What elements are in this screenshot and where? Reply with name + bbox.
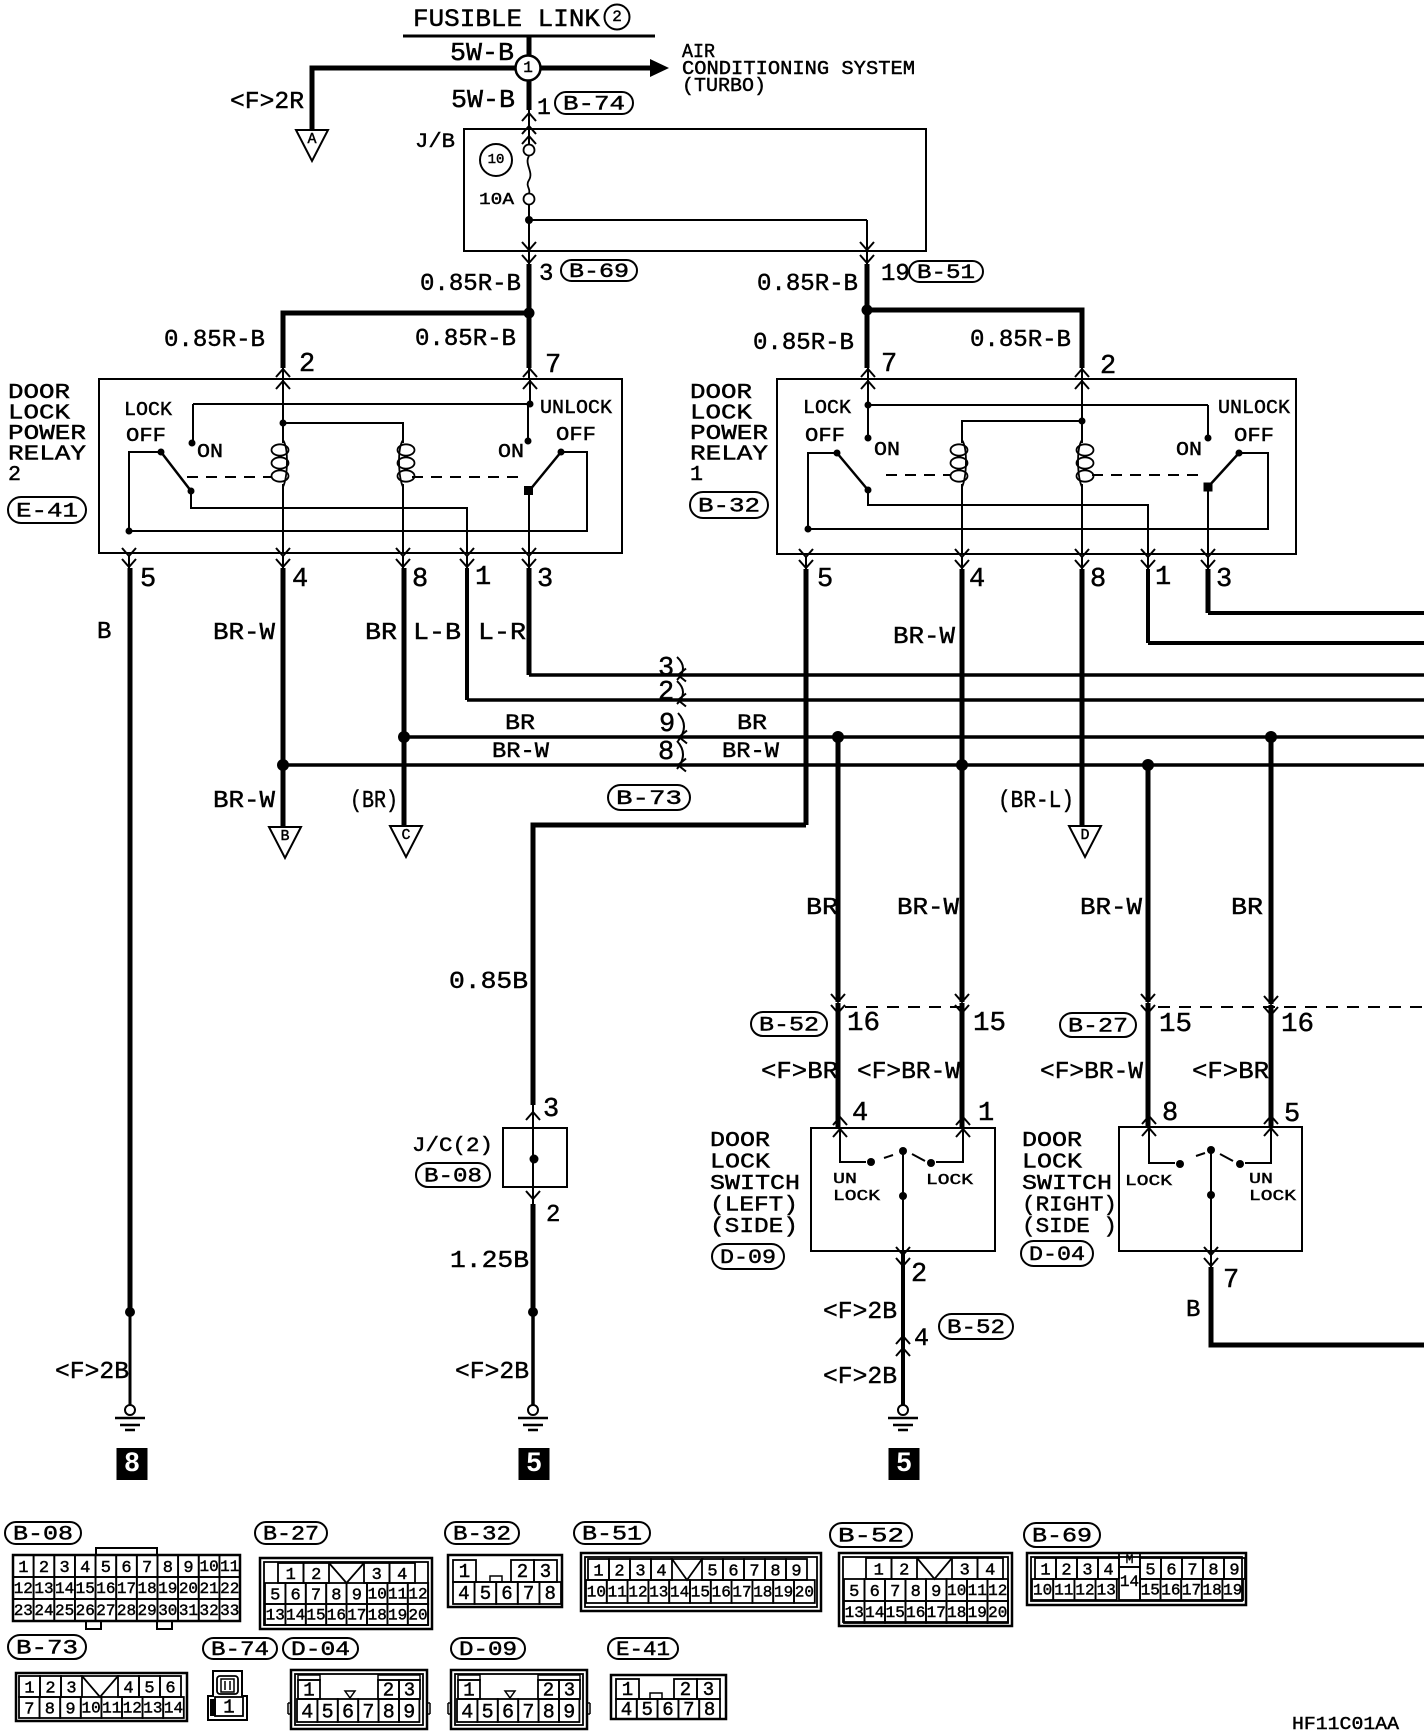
svg-text:1: 1 — [459, 1561, 470, 1583]
svg-text:8: 8 — [704, 1699, 715, 1721]
svg-text:OFF: OFF — [556, 424, 596, 446]
svg-text:8: 8 — [658, 738, 674, 768]
svg-text:5: 5 — [480, 1583, 491, 1605]
svg-text:15: 15 — [973, 1009, 1006, 1039]
svg-text:20: 20 — [179, 1580, 198, 1598]
svg-text:BR-W: BR-W — [213, 788, 276, 815]
svg-text:1.25B: 1.25B — [450, 1248, 529, 1275]
svg-text:21: 21 — [199, 1580, 218, 1598]
svg-text:J/B: J/B — [415, 131, 455, 154]
svg-text:(BR): (BR) — [350, 788, 398, 815]
svg-text:8: 8 — [124, 1447, 139, 1477]
svg-text:B-08: B-08 — [13, 1524, 73, 1547]
svg-text:E-41: E-41 — [616, 1639, 670, 1662]
svg-text:10: 10 — [368, 1586, 387, 1604]
svg-text:1: 1 — [286, 1566, 296, 1585]
svg-text:2: 2 — [8, 464, 21, 487]
svg-text:OFF: OFF — [805, 425, 845, 447]
svg-text:19: 19 — [1223, 1582, 1242, 1600]
svg-text:3: 3 — [635, 1562, 645, 1581]
svg-text:7: 7 — [1223, 1266, 1239, 1296]
svg-text:12: 12 — [14, 1580, 33, 1598]
svg-text:3: 3 — [1216, 565, 1232, 595]
svg-text:LOCK: LOCK — [710, 1152, 770, 1175]
svg-text:11: 11 — [1054, 1582, 1073, 1600]
svg-text:B: B — [280, 828, 289, 845]
svg-text:3: 3 — [372, 1566, 382, 1585]
svg-text:9: 9 — [352, 1586, 362, 1605]
svg-text:<F>2B: <F>2B — [55, 1359, 129, 1386]
svg-text:1: 1 — [593, 1562, 603, 1581]
svg-text:LOCK: LOCK — [124, 399, 173, 421]
svg-text:1: 1 — [978, 1099, 994, 1129]
svg-text:14: 14 — [55, 1580, 74, 1598]
svg-text:16: 16 — [906, 1604, 925, 1622]
svg-text:7: 7 — [522, 1701, 534, 1724]
svg-text:1: 1 — [537, 95, 551, 121]
svg-text:4: 4 — [458, 1583, 469, 1605]
svg-text:(TURBO): (TURBO) — [682, 75, 766, 97]
svg-text:C: C — [401, 827, 410, 844]
svg-text:ON: ON — [498, 441, 524, 463]
svg-text:LOCK: LOCK — [803, 397, 852, 419]
svg-text:8: 8 — [45, 1700, 55, 1719]
svg-text:SWITCH: SWITCH — [710, 1173, 800, 1196]
svg-text:12: 12 — [1075, 1582, 1094, 1600]
svg-text:3: 3 — [543, 1095, 559, 1125]
svg-text:FUSIBLE LINK: FUSIBLE LINK — [413, 5, 600, 34]
svg-text:BR-W: BR-W — [897, 895, 960, 922]
svg-text:B-32: B-32 — [698, 496, 760, 519]
svg-text:11: 11 — [608, 1584, 627, 1602]
svg-text:10: 10 — [199, 1558, 218, 1576]
svg-text:B-74: B-74 — [211, 1639, 269, 1662]
svg-text:29: 29 — [138, 1602, 157, 1620]
svg-text:0.85R-B: 0.85R-B — [420, 271, 521, 298]
svg-text:8: 8 — [412, 565, 428, 595]
svg-text:13: 13 — [649, 1584, 668, 1602]
svg-text:<F>BR: <F>BR — [1192, 1059, 1269, 1086]
svg-text:<F>BR: <F>BR — [761, 1059, 838, 1086]
svg-text:15: 15 — [76, 1580, 95, 1598]
svg-text:B-74: B-74 — [563, 94, 625, 117]
svg-text:B-52: B-52 — [838, 1526, 904, 1549]
svg-text:5: 5 — [1145, 1561, 1155, 1580]
svg-text:9: 9 — [183, 1559, 193, 1578]
svg-text:13: 13 — [266, 1607, 285, 1625]
svg-text:B-51: B-51 — [917, 262, 975, 285]
svg-text:15: 15 — [886, 1604, 905, 1622]
svg-text:1: 1 — [874, 1561, 884, 1580]
svg-text:4: 4 — [985, 1561, 995, 1580]
svg-text:19: 19 — [388, 1607, 407, 1625]
svg-text:7: 7 — [362, 1701, 374, 1724]
svg-text:6: 6 — [121, 1559, 131, 1578]
svg-text:SWITCH: SWITCH — [1022, 1173, 1112, 1196]
svg-text:D-09: D-09 — [720, 1247, 776, 1270]
svg-text:30: 30 — [158, 1602, 177, 1620]
svg-text:7: 7 — [881, 350, 897, 380]
svg-text:19: 19 — [774, 1584, 793, 1602]
svg-text:0.85R-B: 0.85R-B — [164, 327, 265, 354]
svg-text:8: 8 — [1162, 1099, 1178, 1129]
svg-text:1: 1 — [690, 464, 703, 487]
svg-text:BR-W: BR-W — [492, 739, 550, 764]
svg-text:1: 1 — [223, 1697, 234, 1719]
svg-text:M: M — [1126, 1552, 1134, 1567]
svg-text:12: 12 — [988, 1582, 1007, 1600]
svg-text:2: 2 — [658, 678, 674, 708]
svg-text:10: 10 — [81, 1700, 100, 1718]
svg-text:5: 5 — [1284, 1100, 1300, 1130]
svg-text:L-R: L-R — [478, 620, 526, 647]
svg-text:<F>2R: <F>2R — [230, 89, 304, 116]
svg-text:8: 8 — [911, 1583, 921, 1602]
svg-text:10: 10 — [587, 1584, 606, 1602]
svg-text:28: 28 — [117, 1602, 136, 1620]
svg-text:16: 16 — [1161, 1582, 1180, 1600]
svg-text:B-32: B-32 — [453, 1524, 511, 1547]
svg-text:2: 2 — [1061, 1561, 1071, 1580]
svg-text:6: 6 — [290, 1586, 300, 1605]
svg-text:<F>2B: <F>2B — [823, 1364, 897, 1391]
svg-text:D-04: D-04 — [1029, 1244, 1085, 1267]
svg-text:1: 1 — [1155, 563, 1171, 593]
svg-text:BR-W: BR-W — [893, 624, 956, 651]
svg-text:3: 3 — [537, 565, 553, 595]
svg-text:8: 8 — [1208, 1561, 1218, 1580]
svg-text:9: 9 — [65, 1700, 75, 1719]
svg-text:15: 15 — [1141, 1582, 1160, 1600]
svg-text:19: 19 — [158, 1580, 177, 1598]
svg-text:18: 18 — [947, 1604, 966, 1622]
svg-text:4: 4 — [852, 1099, 868, 1129]
svg-text:4: 4 — [656, 1562, 666, 1581]
svg-text:6: 6 — [165, 1679, 175, 1698]
svg-text:9: 9 — [931, 1583, 941, 1602]
svg-text:13: 13 — [34, 1580, 53, 1598]
svg-text:9: 9 — [1229, 1561, 1239, 1580]
svg-text:7: 7 — [24, 1700, 34, 1719]
svg-text:5: 5 — [144, 1679, 154, 1698]
svg-text:<F>BR-W: <F>BR-W — [857, 1059, 961, 1086]
svg-text:15: 15 — [306, 1607, 325, 1625]
svg-text:9: 9 — [563, 1701, 575, 1724]
svg-text:UN: UN — [833, 1171, 857, 1188]
svg-text:3: 3 — [539, 261, 553, 288]
svg-text:B-69: B-69 — [1032, 1526, 1092, 1549]
svg-text:20: 20 — [408, 1607, 427, 1625]
svg-text:24: 24 — [34, 1602, 53, 1620]
svg-text:<F>BR-W: <F>BR-W — [1040, 1059, 1144, 1086]
svg-text:B-73: B-73 — [16, 1638, 78, 1661]
svg-text:10: 10 — [488, 152, 505, 168]
svg-text:5: 5 — [270, 1586, 280, 1605]
svg-text:1: 1 — [1040, 1561, 1050, 1580]
svg-text:2: 2 — [899, 1561, 909, 1580]
svg-text:15: 15 — [1159, 1010, 1192, 1040]
svg-text:2: 2 — [911, 1260, 927, 1290]
svg-text:10A: 10A — [479, 191, 515, 210]
svg-text:6: 6 — [728, 1562, 738, 1581]
svg-text:4: 4 — [301, 1701, 313, 1724]
svg-text:D: D — [1080, 827, 1089, 844]
svg-text:9: 9 — [659, 710, 675, 740]
svg-text:7: 7 — [142, 1559, 152, 1578]
svg-text:2: 2 — [311, 1566, 321, 1585]
svg-text:23: 23 — [14, 1602, 33, 1620]
svg-text:0.85R-B: 0.85R-B — [970, 327, 1071, 354]
svg-text:B-52: B-52 — [759, 1015, 819, 1038]
svg-text:5: 5 — [322, 1701, 334, 1724]
svg-text:18: 18 — [1202, 1582, 1221, 1600]
svg-text:6: 6 — [342, 1701, 354, 1724]
svg-text:4: 4 — [969, 565, 985, 595]
svg-text:4: 4 — [397, 1566, 407, 1585]
svg-text:6: 6 — [662, 1699, 673, 1721]
svg-text:4: 4 — [292, 565, 308, 595]
svg-text:20: 20 — [988, 1604, 1007, 1622]
svg-text:19: 19 — [968, 1604, 987, 1622]
svg-text:7: 7 — [683, 1699, 694, 1721]
svg-text:(LEFT): (LEFT) — [710, 1195, 798, 1218]
svg-text:5: 5 — [641, 1699, 652, 1721]
svg-text:3: 3 — [703, 1679, 714, 1701]
svg-text:33: 33 — [220, 1602, 239, 1620]
svg-text:B-08: B-08 — [424, 1166, 482, 1189]
svg-text:13: 13 — [1097, 1582, 1116, 1600]
svg-text:0.85R-B: 0.85R-B — [415, 326, 516, 353]
svg-text:0.85B: 0.85B — [449, 969, 528, 996]
svg-text:1: 1 — [475, 563, 491, 593]
svg-text:LOCK: LOCK — [1249, 1188, 1296, 1205]
svg-text:27: 27 — [96, 1602, 115, 1620]
svg-text:3: 3 — [540, 1561, 551, 1583]
svg-text:5: 5 — [707, 1562, 717, 1581]
svg-text:D-09: D-09 — [459, 1639, 517, 1662]
svg-text:DOOR: DOOR — [1022, 1130, 1082, 1153]
svg-text:<F>2B: <F>2B — [455, 1359, 529, 1386]
svg-text:11: 11 — [102, 1700, 121, 1718]
svg-text:17: 17 — [927, 1604, 946, 1622]
svg-text:19: 19 — [881, 261, 910, 288]
svg-text:UNLOCK: UNLOCK — [1218, 397, 1291, 419]
svg-text:2: 2 — [614, 1562, 624, 1581]
svg-text:16: 16 — [96, 1580, 115, 1598]
svg-text:6: 6 — [870, 1583, 880, 1602]
svg-text:4: 4 — [461, 1701, 473, 1724]
svg-text:7: 7 — [311, 1586, 321, 1605]
svg-text:8: 8 — [331, 1586, 341, 1605]
svg-text:16: 16 — [1281, 1010, 1314, 1040]
svg-text:3: 3 — [66, 1679, 76, 1698]
svg-text:(BR-L): (BR-L) — [998, 788, 1074, 815]
svg-text:5: 5 — [526, 1447, 541, 1477]
svg-text:B-27: B-27 — [263, 1524, 319, 1547]
svg-text:11: 11 — [968, 1582, 987, 1600]
svg-text:2: 2 — [612, 8, 622, 26]
svg-text:16: 16 — [712, 1584, 731, 1602]
svg-text:7: 7 — [1187, 1561, 1197, 1580]
svg-text:8: 8 — [543, 1701, 555, 1724]
svg-text:3: 3 — [1082, 1561, 1092, 1580]
svg-text:(SIDE ): (SIDE ) — [1022, 1216, 1117, 1239]
svg-text:ON: ON — [197, 441, 223, 463]
svg-text:BR-W: BR-W — [213, 620, 276, 647]
svg-text:10: 10 — [947, 1582, 966, 1600]
svg-text:17: 17 — [732, 1584, 751, 1602]
svg-text:5: 5 — [849, 1583, 859, 1602]
svg-text:18: 18 — [753, 1584, 772, 1602]
svg-text:2: 2 — [1100, 352, 1116, 382]
svg-text:UN: UN — [1249, 1171, 1273, 1188]
svg-text:3: 3 — [59, 1559, 69, 1578]
svg-text:8: 8 — [544, 1583, 555, 1605]
svg-text:3: 3 — [960, 1561, 970, 1580]
svg-text:7: 7 — [890, 1583, 900, 1602]
svg-text:14: 14 — [670, 1584, 689, 1602]
svg-text:7: 7 — [749, 1562, 759, 1581]
svg-text:BR-W: BR-W — [722, 739, 780, 764]
svg-text:L-B: L-B — [413, 620, 461, 647]
svg-text:9: 9 — [791, 1562, 801, 1581]
svg-text:ON: ON — [1176, 439, 1202, 461]
svg-text:LOCK: LOCK — [926, 1172, 973, 1189]
svg-text:LOCK: LOCK — [1125, 1173, 1172, 1190]
svg-text:16: 16 — [847, 1009, 880, 1039]
svg-text:5: 5 — [896, 1447, 911, 1477]
svg-text:15: 15 — [691, 1584, 710, 1602]
svg-text:A: A — [307, 131, 316, 148]
svg-text:1: 1 — [24, 1679, 34, 1698]
svg-text:5: 5 — [140, 565, 156, 595]
svg-text:0.85R-B: 0.85R-B — [757, 271, 858, 298]
svg-text:13: 13 — [143, 1700, 162, 1718]
svg-text:12: 12 — [628, 1584, 647, 1602]
svg-text:9: 9 — [403, 1701, 415, 1724]
svg-text:4: 4 — [1103, 1561, 1113, 1580]
svg-text:UNLOCK: UNLOCK — [540, 397, 613, 419]
svg-text:11: 11 — [220, 1558, 239, 1576]
svg-text:8: 8 — [383, 1701, 395, 1724]
svg-text:2: 2 — [680, 1679, 691, 1701]
svg-text:4: 4 — [914, 1324, 929, 1353]
svg-text:7: 7 — [545, 351, 561, 381]
svg-text:E-41: E-41 — [16, 501, 78, 524]
svg-text:5: 5 — [482, 1701, 494, 1724]
svg-text:13: 13 — [845, 1604, 864, 1622]
svg-text:6: 6 — [502, 1701, 514, 1724]
svg-text:25: 25 — [55, 1602, 74, 1620]
svg-text:14: 14 — [164, 1700, 183, 1718]
svg-text:11: 11 — [388, 1586, 407, 1604]
svg-text:12: 12 — [123, 1700, 142, 1718]
svg-text:8: 8 — [1090, 565, 1106, 595]
svg-text:4: 4 — [621, 1699, 632, 1721]
svg-text:7: 7 — [523, 1583, 534, 1605]
svg-text:1: 1 — [523, 59, 533, 77]
svg-text:5: 5 — [101, 1559, 111, 1578]
svg-text:8: 8 — [770, 1562, 780, 1581]
svg-text:2: 2 — [299, 350, 315, 380]
svg-text:14: 14 — [1120, 1573, 1139, 1591]
svg-text:20: 20 — [795, 1584, 814, 1602]
svg-text:32: 32 — [199, 1602, 218, 1620]
svg-text:2: 2 — [39, 1559, 49, 1578]
svg-text:17: 17 — [1182, 1582, 1201, 1600]
svg-text:OFF: OFF — [1234, 425, 1274, 447]
svg-text:8: 8 — [163, 1559, 173, 1578]
svg-text:B: B — [97, 619, 111, 646]
svg-text:BR: BR — [505, 711, 535, 736]
svg-text:6: 6 — [1166, 1561, 1176, 1580]
svg-text:BR-W: BR-W — [1080, 895, 1143, 922]
svg-text:B: B — [1186, 1297, 1200, 1324]
svg-text:HF11C01AA: HF11C01AA — [1292, 1715, 1399, 1735]
svg-text:BR: BR — [806, 895, 838, 922]
svg-text:18: 18 — [138, 1580, 157, 1598]
svg-text:26: 26 — [76, 1602, 95, 1620]
svg-text:B-52: B-52 — [947, 1317, 1005, 1340]
svg-text:1: 1 — [18, 1559, 28, 1578]
svg-text:1: 1 — [622, 1679, 633, 1701]
svg-text:LOCK: LOCK — [833, 1188, 880, 1205]
svg-text:ON: ON — [874, 439, 900, 461]
svg-text:4: 4 — [123, 1679, 133, 1698]
svg-text:DOOR: DOOR — [710, 1130, 770, 1153]
svg-text:OFF: OFF — [126, 425, 166, 447]
svg-text:D-04: D-04 — [291, 1639, 350, 1662]
svg-text:4: 4 — [80, 1559, 90, 1578]
svg-text:22: 22 — [220, 1580, 239, 1598]
svg-text:31: 31 — [179, 1602, 198, 1620]
svg-text:14: 14 — [865, 1604, 884, 1622]
svg-text:B-51: B-51 — [582, 1524, 642, 1547]
svg-text:17: 17 — [117, 1580, 136, 1598]
svg-text:5: 5 — [817, 565, 833, 595]
svg-text:16: 16 — [327, 1607, 346, 1625]
svg-text:LOCK: LOCK — [1022, 1152, 1082, 1175]
svg-text:<F>2B: <F>2B — [823, 1299, 897, 1326]
svg-text:10: 10 — [1033, 1582, 1052, 1600]
svg-text:BR: BR — [1231, 895, 1263, 922]
svg-text:17: 17 — [347, 1607, 366, 1625]
svg-text:14: 14 — [286, 1607, 305, 1625]
svg-text:2: 2 — [517, 1561, 528, 1583]
svg-text:J/C(2): J/C(2) — [412, 1135, 493, 1158]
svg-text:18: 18 — [368, 1607, 387, 1625]
svg-text:(RIGHT): (RIGHT) — [1022, 1195, 1117, 1218]
svg-text:B-69: B-69 — [569, 261, 629, 284]
svg-text:0.85R-B: 0.85R-B — [753, 330, 854, 357]
svg-text:B-27: B-27 — [1068, 1016, 1128, 1039]
svg-text:BR: BR — [365, 620, 397, 647]
svg-text:5W-B: 5W-B — [451, 85, 515, 115]
svg-text:2: 2 — [45, 1679, 55, 1698]
svg-text:2: 2 — [546, 1202, 560, 1229]
svg-text:12: 12 — [408, 1586, 427, 1604]
svg-text:B-73: B-73 — [616, 788, 682, 811]
svg-text:(SIDE): (SIDE) — [710, 1216, 798, 1239]
svg-text:BR: BR — [737, 711, 767, 736]
svg-text:6: 6 — [501, 1583, 512, 1605]
svg-text:5W-B: 5W-B — [450, 38, 514, 68]
